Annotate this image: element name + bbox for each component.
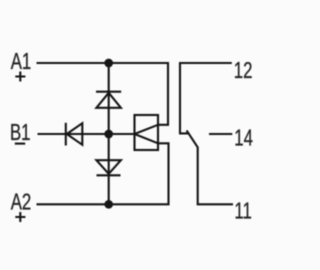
contact movable arm to 11: [187, 130, 233, 204]
contact 12 fixed (wire + end tick): [179, 63, 232, 133]
svg-text:12: 12: [234, 58, 253, 83]
contact 14 fixed: [209, 133, 232, 135]
svg-text:A2: A2: [11, 190, 32, 215]
plus sign under A2: [15, 212, 25, 222]
relay coil chevron: [135, 125, 159, 144]
plus sign under A1: [15, 72, 25, 82]
minus sign under B1: [15, 143, 25, 145]
junction dot A1: [104, 59, 113, 68]
diode D3 (points down, cathode bar bottom): [96, 160, 121, 175]
wire A2 row to coil bottom: [37, 143, 169, 204]
svg-text:A1: A1: [11, 50, 32, 75]
svg-text:B1: B1: [10, 121, 31, 146]
diode D1 (points up, cathode bar top): [96, 92, 121, 108]
wire B1 row: [38, 133, 135, 135]
wire vertical trunk: [108, 63, 110, 204]
relay coil K1 rectangle: [135, 115, 159, 150]
svg-text:14: 14: [234, 126, 253, 151]
wire A1 row to coil top: [37, 63, 169, 125]
diode D2 (points left, cathode bar left): [66, 123, 83, 146]
junction dot B1: [104, 130, 113, 139]
svg-text:11: 11: [234, 199, 251, 224]
junction dot A2: [104, 200, 113, 209]
